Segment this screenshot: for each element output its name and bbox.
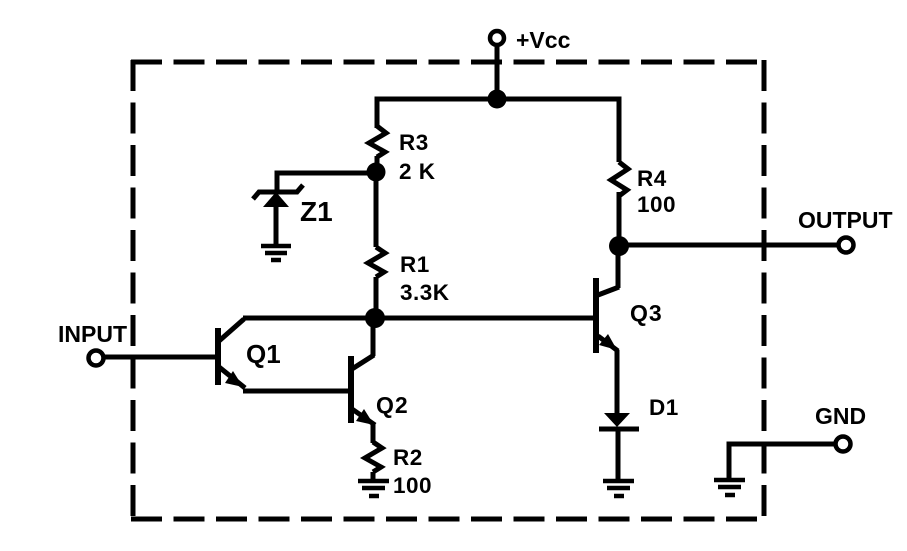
zener Z1 [253,185,333,227]
transistor Q3 [596,278,663,353]
wire: Q3 emitter to D1 [615,350,620,414]
wire: Q2 collector to node B [371,318,376,356]
wire: D1 to ground [616,430,621,480]
wire: GND terminal to ground [729,444,835,478]
svg-text:Z1: Z1 [300,196,333,227]
ground (below R2) [358,481,389,496]
wire: Q1 emitter to Q2 base [243,389,351,394]
INPUT terminal [58,321,127,366]
transistor Q1 [218,319,281,388]
svg-text:R3: R3 [399,130,429,155]
node B: R1/Q1/Q2/Q3 base rail junction [365,308,385,328]
svg-text:100: 100 [393,473,432,498]
wire: Q2 emitter to R2 [371,423,376,443]
wire: R1 to node B [374,277,379,318]
wire: node C to OUTPUT [619,243,838,248]
ground (below D1) [603,481,634,496]
svg-text:OUTPUT: OUTPUT [798,207,893,233]
wire: node A to R1 [374,172,379,247]
svg-text:Q2: Q2 [376,392,409,418]
+Vcc terminal [490,27,571,53]
OUTPUT terminal [798,207,893,253]
transistor Q2 [351,355,409,425]
svg-text:R2: R2 [393,445,423,470]
svg-text:+Vcc: +Vcc [516,27,571,53]
wire: zener to ground [274,205,279,245]
wire: INPUT to Q1 base [104,355,218,360]
svg-text:3.3K: 3.3K [400,280,450,305]
svg-text:Q3: Q3 [630,300,663,326]
svg-text:100: 100 [637,192,676,217]
svg-text:2 K: 2 K [399,159,436,184]
diode D1 [599,395,679,429]
ground (below Z1) [261,246,291,260]
resistor R1 [368,247,450,305]
GND terminal [815,403,866,452]
resistor R3 [369,126,436,184]
svg-text:GND: GND [815,403,866,429]
resistor R4 [611,162,676,217]
resistor R2 [365,442,432,498]
wire: R2 to ground [371,472,376,480]
svg-text:D1: D1 [649,395,679,420]
svg-text:R4: R4 [637,166,667,191]
svg-text:INPUT: INPUT [58,321,127,347]
wire: node C to Q3 collector [616,246,621,288]
wire: R3 to node A [375,156,380,172]
wire: R4 to node C [617,192,622,246]
wire: node A to zener Z1 [277,173,376,190]
wire: Vcc stem [495,45,500,99]
node C: output junction [609,236,629,256]
wire: top rail [377,99,619,162]
ground (GND terminal) [714,480,745,495]
wire: mid rail (Q1 collector to Q3 base) [243,316,596,321]
node: Vcc rail junction [488,90,507,109]
node A: R3/R1/Z1 junction [367,163,386,182]
svg-text:Q1: Q1 [246,339,281,369]
package dashed boundary [131,60,764,519]
svg-text:R1: R1 [400,252,430,277]
